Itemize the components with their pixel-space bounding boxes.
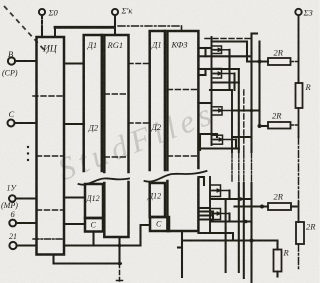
rail x259.5: [258, 42, 260, 127]
rail x243.8: [243, 90, 245, 152]
wire ladder to 2R term: [298, 202, 300, 222]
transistor VT6: [210, 209, 221, 220]
comb RG2 right ticks: [199, 210, 213, 212]
rail x210 lower: [209, 177, 211, 233]
gate wire T1: [198, 47, 211, 49]
divider ИЦ 3: [37, 209, 65, 211]
terminal Σ'к: [112, 9, 118, 15]
divider ИЦ 1: [33, 95, 64, 97]
wire bottom dashed tail: [119, 264, 121, 282]
wire T4 out thick: [232, 136, 252, 138]
transistor VT5: [210, 185, 221, 197]
watermark StudFiles: [53, 94, 221, 187]
divider RG1 a: [104, 93, 128, 95]
gate wire T1b: [198, 55, 211, 57]
wire ИЦ to Д1 (row B): [64, 62, 84, 64]
wire ИЦ to Д12 (row 1У): [64, 196, 85, 198]
wire T1 bottom: [212, 55, 252, 57]
resistor R bottom: [274, 250, 282, 272]
rail x211.5: [211, 37, 213, 145]
terminal C: [8, 120, 15, 127]
wire dash-dot bus to КФЗ: [118, 25, 182, 27]
resistor R ladder top: [296, 83, 303, 108]
block C2: [150, 217, 169, 231]
terminal 21: [9, 242, 16, 249]
gate wire T2: [198, 68, 211, 70]
wire 2R bit0 right dashed: [291, 61, 298, 63]
resistor 2R bit1: [268, 122, 291, 129]
wire T2 top: [212, 68, 239, 70]
resistor 2R bit0: [268, 58, 291, 65]
wire R bottom top: [252, 241, 278, 250]
wire to 2R bit1: [260, 125, 269, 127]
wire ladder omission dash-dot: [298, 137, 300, 202]
gate wire T4 jog: [200, 134, 217, 150]
block C1: [85, 218, 103, 232]
wire КФЗ bottom pin: [181, 231, 183, 277]
wire Σ'к down: [114, 15, 116, 35]
wire bit0 top: [212, 42, 248, 62]
wire Σ3 down to ladder: [298, 15, 300, 83]
wire B: [15, 60, 36, 62]
gate hook T2: [204, 69, 206, 75]
gate hook upper: [204, 48, 206, 56]
block КФЗ: [167, 31, 198, 170]
corner pen mark: [4, 6, 47, 53]
block Д column 2: [150, 31, 165, 170]
wire RG1 bottom pin: [118, 237, 120, 264]
wire to 2R bit n: [235, 205, 269, 207]
terminal B (CP): [8, 57, 15, 64]
wire ladder mid: [298, 108, 300, 137]
rail x225.6 lower: [225, 199, 227, 272]
divider КФЗ b: [167, 155, 198, 157]
terminal Σ3: [295, 9, 301, 15]
gate wire T2b: [198, 74, 205, 76]
wire 6: [16, 222, 36, 224]
divider ИЦ dash-dot: [33, 238, 64, 240]
wire ИЦ to Д2 (row C): [64, 123, 84, 125]
block RG1: [104, 35, 128, 172]
wire bus to ИЦ: [54, 27, 56, 37]
divider КФЗ a: [167, 89, 198, 91]
rail x232: [231, 90, 233, 152]
wire jog from КФЗ bottom: [198, 233, 233, 241]
wire top dashed: [205, 38, 252, 40]
wire C: [15, 122, 37, 124]
wire R bottom tail: [276, 272, 278, 277]
ellipsis dots: [27, 146, 29, 161]
rail x238.8: [238, 69, 240, 152]
wire C1 clock pin: [92, 232, 94, 246]
collector bar VT1: [228, 50, 230, 90]
wire T5 bottom: [212, 198, 252, 200]
wire T3 out: [232, 109, 260, 111]
terminal 1У (МР): [9, 195, 16, 202]
wire 2R bitn right: [291, 205, 297, 207]
resistor 2R terminator: [296, 222, 304, 244]
terminal Σ0: [39, 9, 45, 15]
divider RG1 b: [104, 156, 128, 158]
wire to 2R bit0: [247, 60, 268, 62]
wire Σ0 down: [41, 15, 43, 30]
wire bottom bus: [54, 255, 122, 264]
collector bar VT2: [233, 74, 235, 91]
wire RG1 to Д col2 (dashed a): [129, 63, 150, 65]
wire RG1 to Д col2 (dashed b): [129, 122, 150, 124]
wire term tail dash-dot: [298, 244, 300, 271]
transistor VT2: [212, 69, 222, 79]
terminal 6: [9, 220, 16, 227]
wire row 21 to C2: [64, 225, 150, 246]
wire 1У: [16, 197, 37, 199]
transistor VT1: [212, 46, 222, 54]
block Д12 group2: [150, 183, 165, 217]
collector bar VT5: [228, 191, 230, 200]
gate wire T5: [198, 177, 204, 185]
wire T2 bottom: [212, 81, 239, 83]
resistor 2R bit n: [268, 203, 291, 210]
divider ИЦ 2: [37, 155, 65, 157]
wire 2R bit1 right dashed: [291, 124, 298, 126]
wire RG2 mid out: [198, 147, 238, 149]
gate wire T3: [198, 102, 211, 104]
block Д12 group1: [85, 184, 103, 218]
wire VT4 tail: [235, 140, 237, 149]
bus top: [55, 26, 114, 29]
gate wire T6: [198, 207, 209, 209]
block ИЦ: [37, 37, 65, 255]
collector bar VT6: [228, 214, 230, 222]
rail x251.5: [250, 34, 252, 153]
wire T6 bottom: [212, 220, 252, 222]
wire pair join: [210, 89, 232, 91]
tear wavy group2: [145, 171, 207, 182]
transistor VT4: [212, 135, 223, 144]
wire bottom row to rails: [182, 239, 252, 241]
wire ИЦ to C1 (row 6): [64, 223, 85, 225]
wire 21: [17, 244, 37, 246]
tear wavy group1: [79, 178, 130, 184]
block Д column 1: [84, 35, 102, 171]
transistor VT3: [212, 107, 223, 115]
